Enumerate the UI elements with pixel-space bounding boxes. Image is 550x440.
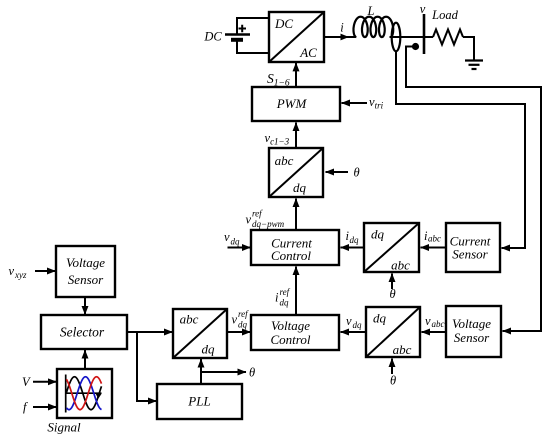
svg-text:i: i [340,21,344,35]
svg-text:dq: dq [371,227,385,242]
svg-text:Sensor: Sensor [452,247,488,262]
svg-text:θ: θ [390,287,396,301]
svg-text:L: L [367,4,375,18]
svg-text:vc1−3: vc1−3 [265,131,290,147]
svg-text:AC: AC [299,45,317,60]
svg-text:θ: θ [390,374,396,388]
svg-text:Control: Control [271,332,311,347]
svg-text:V: V [22,375,31,389]
svg-text:Control: Control [271,248,311,263]
svg-text:dq: dq [353,320,363,330]
svg-text:DC: DC [274,16,293,31]
svg-text:Voltage: Voltage [66,255,105,270]
svg-text:v: v [425,314,431,328]
svg-text:v: v [246,213,252,227]
svg-text:ref: ref [280,287,291,297]
svg-text:v: v [346,314,352,328]
svg-text:xyz: xyz [14,270,27,280]
svg-text:abc: abc [428,234,441,244]
svg-text:abc: abc [393,342,412,357]
svg-text:dq: dq [373,311,387,326]
svg-text:dq: dq [231,237,241,247]
svg-text:abc: abc [391,258,410,273]
svg-text:vtri: vtri [369,95,384,111]
svg-text:θ: θ [354,166,360,180]
svg-text:dq: dq [238,320,248,330]
svg-text:v: v [224,230,230,244]
svg-text:S1−6: S1−6 [267,71,290,89]
svg-text:dq: dq [350,235,360,245]
svg-text:ref: ref [238,309,249,319]
svg-text:dq−pwm: dq−pwm [252,219,285,229]
svg-text:abc: abc [180,312,199,327]
svg-text:i: i [275,291,279,305]
svg-text:PWM: PWM [276,96,308,111]
svg-text:Signal: Signal [47,420,81,435]
svg-text:Sensor: Sensor [68,272,104,287]
svg-text:θ: θ [249,366,255,380]
svg-text:v: v [420,2,426,16]
svg-text:ref: ref [252,209,263,219]
svg-text:dq: dq [202,342,216,357]
svg-text:Selector: Selector [60,325,105,340]
svg-text:f: f [23,400,28,414]
svg-text:Voltage: Voltage [271,318,310,333]
svg-text:DC: DC [203,30,222,44]
svg-text:abc: abc [275,153,294,168]
svg-text:PLL: PLL [187,394,210,409]
svg-text:dq: dq [280,298,290,308]
svg-text:Load: Load [431,8,458,22]
svg-text:v: v [9,264,15,278]
svg-text:v: v [232,313,238,327]
svg-text:Voltage: Voltage [452,316,491,331]
svg-text:abc: abc [432,319,445,329]
svg-text:dq: dq [293,180,307,195]
svg-text:Sensor: Sensor [454,330,490,345]
